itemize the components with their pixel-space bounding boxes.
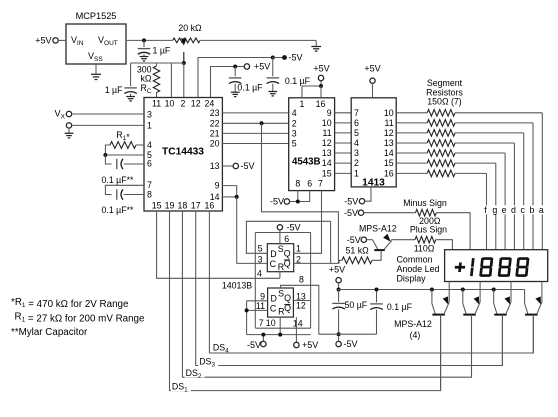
svg-text:13: 13 bbox=[322, 148, 332, 158]
-5V terminal dot bbox=[282, 55, 287, 60]
junction node VOUT/1uF bbox=[142, 38, 146, 42]
label Plus Sign bbox=[410, 225, 447, 235]
svg-text:11: 11 bbox=[385, 118, 394, 128]
svg-text:3: 3 bbox=[258, 254, 263, 264]
wire 4543 pin16 vdd bbox=[320, 86, 322, 98]
wire pin14 bbox=[222, 196, 236, 198]
TC right pin labels bbox=[210, 108, 220, 202]
wire VOUT output bbox=[126, 39, 173, 41]
svg-text:6: 6 bbox=[307, 179, 312, 189]
wire pin21 to 4543 pin3 bbox=[222, 132, 288, 134]
wire pin9 bbox=[222, 186, 236, 197]
terminal -5V minus sign bbox=[358, 210, 363, 215]
svg-text:+5V: +5V bbox=[302, 340, 318, 350]
svg-text:0.1 µF: 0.1 µF bbox=[237, 82, 263, 92]
wires 1413 outputs bbox=[396, 113, 427, 174]
resistor RC 300k bbox=[153, 63, 159, 98]
wire pin7 riser bbox=[262, 335, 264, 342]
svg-text:2: 2 bbox=[354, 158, 359, 168]
wire DS4 bbox=[209, 211, 533, 353]
label 0.1uF A bbox=[237, 82, 263, 92]
label 0.1uF starred 2 bbox=[102, 205, 135, 215]
svg-text:1: 1 bbox=[354, 169, 359, 179]
svg-text:2: 2 bbox=[292, 118, 297, 128]
wire R2 riser bbox=[279, 317, 281, 335]
+5V supply input label bbox=[35, 35, 51, 45]
wire C2 bbox=[247, 309, 268, 311]
label -5V U5a bbox=[287, 222, 301, 232]
svg-text:18: 18 bbox=[178, 201, 188, 211]
wire DS1 bbox=[170, 211, 441, 391]
svg-text:8: 8 bbox=[147, 189, 152, 199]
svg-text:b: b bbox=[530, 205, 535, 215]
svg-text:17: 17 bbox=[191, 201, 201, 211]
label -5V plus base bbox=[347, 235, 361, 245]
pot wiper arrow bbox=[181, 38, 187, 63]
junction caps bottom bbox=[337, 332, 341, 336]
capacitor 0.1uF C bbox=[319, 290, 383, 335]
label VX bbox=[55, 109, 66, 121]
wire D2 bbox=[247, 300, 268, 302]
label +5V 1413 bbox=[364, 64, 380, 74]
svg-text:23: 23 bbox=[210, 108, 220, 118]
svg-text:20 kΩ: 20 kΩ bbox=[178, 23, 202, 33]
wire TC pin15 to R1 bbox=[157, 211, 280, 278]
1413 +5V bbox=[370, 78, 375, 98]
label Minus Sign bbox=[403, 198, 447, 208]
svg-text:1: 1 bbox=[300, 99, 305, 109]
wire plus to display bbox=[436, 240, 453, 250]
svg-text:2: 2 bbox=[181, 99, 186, 109]
wire pin 12 up-over bbox=[198, 58, 273, 98]
svg-text:6: 6 bbox=[354, 118, 359, 128]
svg-text:C: C bbox=[270, 259, 277, 269]
capacitor 0.1uF pins7-8 bbox=[117, 189, 144, 199]
wire D2/C2 drop bbox=[246, 301, 248, 335]
label Segment Resistors bbox=[426, 78, 463, 107]
svg-text:MPS-A12: MPS-A12 bbox=[394, 319, 432, 329]
label -5V minus sign bbox=[344, 208, 358, 218]
svg-text:-5V: -5V bbox=[344, 208, 358, 218]
wire Q1bar loop bbox=[294, 262, 339, 264]
wire DS3 bbox=[196, 211, 503, 366]
svg-text:4: 4 bbox=[292, 108, 297, 118]
label -5V pin13 bbox=[241, 161, 255, 171]
note mylar capacitor bbox=[11, 327, 88, 338]
wire pin13 stub bbox=[222, 165, 233, 167]
wire S2 loop bbox=[281, 285, 319, 334]
label Common Anode Led Display bbox=[397, 254, 440, 283]
flip-flop U5a box bbox=[267, 244, 293, 272]
label -5V top bbox=[289, 53, 303, 63]
Q5 collector bbox=[372, 250, 381, 260]
label 1uF second bbox=[105, 85, 123, 95]
svg-text:c: c bbox=[520, 205, 525, 215]
resistor 200 ohm minus bbox=[416, 209, 437, 216]
label DS4 bbox=[212, 342, 232, 355]
label 300 kOhm RC bbox=[137, 65, 152, 96]
svg-text:12: 12 bbox=[296, 301, 306, 311]
svg-text:d: d bbox=[511, 205, 516, 215]
wire Q1 to 4543 LD bbox=[0, 0, 1, 1]
label MPS-A12 top bbox=[359, 223, 397, 233]
wire minus to display bbox=[436, 213, 470, 250]
svg-text:11: 11 bbox=[256, 301, 265, 311]
label 110 ohm bbox=[414, 244, 435, 254]
wire R1 left leg bbox=[105, 145, 110, 155]
svg-text:150Ω (7): 150Ω (7) bbox=[427, 97, 462, 107]
label +5V a bbox=[254, 62, 270, 72]
terminal -5V pin13 bbox=[233, 163, 238, 168]
svg-text:3: 3 bbox=[292, 128, 297, 138]
wire pin23 to 4543 pin4 bbox=[222, 112, 288, 114]
wire C1 from EOC bbox=[237, 262, 268, 264]
svg-text:MCP1525: MCP1525 bbox=[76, 11, 117, 21]
capacitor 0.1uF A bbox=[229, 67, 242, 97]
resistor 110 ohm plus bbox=[415, 236, 436, 243]
pin label VSS bbox=[88, 51, 103, 63]
wire pin7 left bbox=[105, 185, 144, 194]
svg-text:16: 16 bbox=[205, 201, 215, 211]
label -5V caps bbox=[344, 339, 358, 349]
svg-text:5: 5 bbox=[292, 139, 297, 149]
junction 0.1uF capA bbox=[233, 65, 237, 69]
wire set stem U5a bbox=[279, 230, 281, 244]
svg-text:1413: 1413 bbox=[362, 177, 385, 188]
display digit 8 third bbox=[515, 257, 529, 277]
pin label VOUT bbox=[98, 35, 118, 47]
TC top pin labels bbox=[152, 99, 214, 109]
svg-text:4: 4 bbox=[354, 138, 359, 148]
U5a pin labels bbox=[257, 234, 301, 279]
junction rail pin7 bbox=[261, 333, 265, 337]
wires resistors to display segment drops bbox=[455, 113, 542, 250]
terminal input low bbox=[66, 123, 71, 128]
junction R1/pin5 bbox=[103, 153, 107, 157]
svg-text:50 µF: 50 µF bbox=[345, 300, 368, 310]
4543 +5V riser bbox=[302, 81, 321, 98]
svg-text:Q: Q bbox=[284, 249, 291, 259]
U5b pin labels bbox=[256, 275, 306, 329]
label +5V 4543 bbox=[313, 64, 329, 74]
svg-text:12: 12 bbox=[322, 138, 332, 148]
segment letters f g e d c b a bbox=[482, 205, 546, 215]
wire -5V rail FFs bbox=[247, 334, 311, 336]
U5b letters bbox=[270, 289, 291, 317]
wire R1 reset bbox=[279, 272, 281, 279]
svg-text:TC14433: TC14433 bbox=[162, 147, 204, 158]
transistor Q2 MPS-A12 bbox=[461, 282, 480, 378]
svg-text:14: 14 bbox=[293, 318, 303, 328]
wire base lead bbox=[367, 240, 378, 250]
1413 right pin labels bbox=[384, 108, 394, 179]
transistor Q5 MPS-A12 bar bbox=[374, 249, 385, 251]
junction 4543 vdd bbox=[319, 84, 323, 88]
capacitor 1uF second bbox=[124, 88, 137, 101]
svg-text:Anode Led: Anode Led bbox=[397, 264, 440, 274]
label -5V 1413 bbox=[344, 196, 358, 206]
svg-text:D: D bbox=[270, 249, 276, 259]
wire +5V to VIN bbox=[58, 39, 66, 41]
terminal +5V input bbox=[53, 38, 58, 43]
terminal +5V cap rail bbox=[336, 278, 341, 283]
svg-text:1 µF: 1 µF bbox=[153, 46, 171, 56]
svg-text:10: 10 bbox=[266, 318, 276, 328]
wire 51k left leg bbox=[339, 260, 342, 263]
svg-text:10: 10 bbox=[322, 118, 332, 128]
svg-text:9: 9 bbox=[327, 108, 332, 118]
svg-text:14: 14 bbox=[322, 158, 332, 168]
TC left pin labels bbox=[147, 110, 152, 200]
terminal +5V 4543 bbox=[318, 75, 323, 80]
junction wiper/adj wire bbox=[182, 61, 186, 65]
svg-text:R1 = 27 kΩ for 200 mV Range: R1 = 27 kΩ for 200 mV Range bbox=[15, 312, 145, 325]
svg-text:Q: Q bbox=[284, 293, 291, 303]
svg-text:kΩ: kΩ bbox=[141, 74, 152, 84]
display digit 1 bbox=[470, 258, 475, 276]
svg-text:e: e bbox=[502, 205, 507, 215]
svg-text:*R1 = 470 kΩ for 2V Range: *R1 = 470 kΩ for 2V Range bbox=[11, 297, 129, 310]
svg-text:16: 16 bbox=[384, 169, 394, 179]
svg-text:6: 6 bbox=[284, 234, 289, 244]
terminal -5V U5a bbox=[277, 225, 282, 230]
wire cap to pin6 bbox=[105, 155, 144, 169]
wire rect left vertical bbox=[254, 233, 256, 328]
junction C2 bbox=[245, 308, 249, 312]
4543 top pin labels bbox=[300, 99, 326, 109]
svg-text:9: 9 bbox=[215, 181, 220, 191]
wire pin 24 up-over bbox=[211, 67, 245, 98]
svg-text:3: 3 bbox=[147, 110, 152, 120]
svg-text:12: 12 bbox=[384, 128, 394, 138]
display digit 8 first bbox=[479, 257, 493, 277]
label 51 kOhm bbox=[346, 245, 370, 255]
svg-text:10: 10 bbox=[384, 108, 394, 118]
svg-text:3: 3 bbox=[354, 148, 359, 158]
svg-text:9: 9 bbox=[260, 292, 265, 302]
label DS2 bbox=[185, 368, 205, 381]
note R1 values line1 bbox=[11, 297, 129, 310]
svg-text:14: 14 bbox=[384, 148, 394, 158]
junction 0.1uF capB bbox=[271, 56, 275, 60]
transistor rail bbox=[339, 289, 525, 291]
svg-text:15: 15 bbox=[322, 168, 332, 178]
svg-text:Minus Sign: Minus Sign bbox=[403, 198, 447, 208]
svg-text:Display: Display bbox=[397, 274, 427, 284]
svg-text:**Mylar Capacitor: **Mylar Capacitor bbox=[11, 327, 88, 338]
1413 -5V bottom bbox=[359, 187, 371, 204]
Q5 emitter with arrow bbox=[383, 234, 391, 250]
label DS3 bbox=[198, 356, 218, 369]
svg-text:-5V: -5V bbox=[289, 53, 303, 63]
svg-text:8: 8 bbox=[295, 179, 300, 189]
label DS1 bbox=[171, 381, 191, 394]
4543 left pin labels bbox=[292, 108, 297, 149]
wire pin 10 riser bbox=[170, 63, 172, 98]
terminal -5V rail bbox=[261, 341, 266, 346]
wire 4543 pin7 LD down bbox=[294, 191, 322, 254]
svg-text:1: 1 bbox=[147, 120, 152, 130]
wire +5V to rail bbox=[338, 283, 340, 290]
4543 -5V bottom bbox=[284, 199, 289, 204]
capacitor 0.1uF B bbox=[267, 58, 280, 96]
svg-text:+5V: +5V bbox=[313, 64, 329, 74]
svg-text:-5V: -5V bbox=[344, 196, 358, 206]
svg-text:15: 15 bbox=[152, 201, 162, 211]
svg-text:-5V: -5V bbox=[247, 340, 261, 350]
wires 4543B to 1413 bbox=[335, 113, 352, 174]
wire 1uF cap2 drop bbox=[130, 63, 132, 86]
wire adj rail bbox=[131, 62, 184, 64]
svg-text:6: 6 bbox=[147, 159, 152, 169]
svg-text:-5V: -5V bbox=[270, 197, 284, 207]
junction rail left bbox=[337, 288, 341, 292]
label 0.1uF starred bbox=[102, 175, 135, 185]
wire VX to pin3 bbox=[72, 113, 144, 115]
wire W_A from TC22 bbox=[262, 123, 339, 263]
svg-text:15: 15 bbox=[384, 158, 394, 168]
wire W_B down bbox=[330, 221, 332, 263]
svg-text:4543B: 4543B bbox=[292, 156, 321, 167]
decoder U2 4543B box bbox=[289, 98, 335, 191]
svg-text:11: 11 bbox=[152, 99, 161, 109]
junction pin14 bbox=[235, 195, 239, 199]
svg-text:g: g bbox=[492, 205, 497, 215]
ground at top right of pot wire bbox=[311, 47, 321, 52]
terminal VX bbox=[66, 111, 71, 116]
svg-text:C: C bbox=[270, 304, 277, 314]
svg-text:-5V: -5V bbox=[287, 222, 301, 232]
label TC14433 bbox=[162, 147, 204, 158]
label 0.1uF B bbox=[285, 76, 311, 86]
potentiometer 20k bbox=[173, 38, 200, 43]
transistor Q3 MPS-A12 bbox=[492, 282, 511, 366]
driver U4 1413 box bbox=[351, 98, 396, 187]
svg-text:7: 7 bbox=[354, 108, 359, 118]
label -5V 4543 bbox=[270, 197, 284, 207]
label 1413 bbox=[362, 177, 385, 188]
svg-text:Plus Sign: Plus Sign bbox=[410, 225, 447, 235]
wire rect bottom bbox=[255, 327, 310, 329]
label 200 ohm bbox=[419, 216, 441, 226]
svg-text:110Ω: 110Ω bbox=[414, 244, 435, 254]
label MPS-A12 (4) bbox=[394, 319, 432, 340]
label -5V rail bbox=[247, 340, 261, 350]
wire pin20 to 4543 pin5 bbox=[222, 143, 288, 145]
label 14013B bbox=[222, 281, 252, 291]
display digit 8 second bbox=[498, 257, 512, 277]
resistor 51k bbox=[342, 257, 372, 264]
svg-text:0.1 µF**: 0.1 µF** bbox=[102, 205, 135, 215]
terminal +5V a bbox=[244, 64, 249, 69]
wire Q2 bbox=[293, 300, 310, 302]
svg-text:51 kΩ: 51 kΩ bbox=[346, 245, 370, 255]
wire pin5 bbox=[105, 154, 144, 156]
wire Q2bar rect top bbox=[255, 232, 310, 234]
svg-text:-5V: -5V bbox=[241, 161, 255, 171]
svg-text:16: 16 bbox=[316, 99, 326, 109]
svg-text:0.1 µF: 0.1 µF bbox=[387, 302, 413, 312]
wire to pin1 bbox=[72, 124, 144, 126]
junction pin22 bbox=[260, 121, 264, 125]
label +5V pin14 bbox=[302, 340, 318, 350]
svg-text:(4): (4) bbox=[410, 330, 421, 340]
svg-text:13: 13 bbox=[210, 161, 220, 171]
terminal +5V pin14 bbox=[294, 342, 299, 347]
wire pot right to ground bbox=[200, 40, 316, 46]
label 4543B bbox=[292, 156, 321, 167]
ADC U1 TC14433 box bbox=[144, 98, 222, 212]
wire plus sign bbox=[391, 239, 415, 241]
4543 right pin labels bbox=[322, 108, 332, 179]
svg-text:Common: Common bbox=[397, 254, 433, 264]
svg-text:11: 11 bbox=[322, 128, 331, 138]
display plus sign glyph bbox=[454, 263, 465, 273]
svg-text:0.1 µF**: 0.1 µF** bbox=[102, 175, 135, 185]
wire EOC down to FF clock bbox=[236, 197, 238, 264]
svg-text:MPS-A12: MPS-A12 bbox=[359, 223, 397, 233]
TC bottom pin labels bbox=[152, 201, 215, 211]
voltage reference U3 MCP1525 box bbox=[66, 11, 126, 64]
wire D1 loop to S2 bbox=[246, 221, 330, 253]
wire minus sign bbox=[364, 212, 416, 214]
capacitor 1uF at VOUT bbox=[138, 40, 151, 61]
svg-text:21: 21 bbox=[210, 128, 220, 138]
flip-flop U5b box bbox=[268, 288, 294, 317]
svg-text:19: 19 bbox=[165, 201, 175, 211]
junction rail 0.1uF bbox=[375, 288, 379, 292]
label +5V cap rail bbox=[329, 265, 345, 275]
capacitor 50uF bbox=[332, 290, 345, 335]
svg-text:20: 20 bbox=[210, 139, 220, 149]
wire -5V to pins 8 6 bbox=[290, 191, 310, 202]
svg-text:0.1 µF: 0.1 µF bbox=[285, 76, 311, 86]
svg-text:-5V: -5V bbox=[347, 235, 361, 245]
wire rect right vertical bbox=[310, 233, 312, 329]
svg-text:5: 5 bbox=[354, 128, 359, 138]
4543 bottom pin labels bbox=[295, 179, 323, 189]
wire to -5V terminal bbox=[273, 57, 285, 59]
terminal -5V plus base bbox=[361, 237, 366, 242]
svg-text:5: 5 bbox=[258, 244, 263, 254]
wire pin14 riser bbox=[295, 317, 297, 342]
display DS1 common anode box bbox=[445, 250, 548, 282]
label 1uF bbox=[153, 46, 171, 56]
wire wiper down to pin 2 bbox=[183, 63, 185, 98]
svg-text:2: 2 bbox=[296, 254, 301, 264]
U5a letters bbox=[270, 244, 291, 272]
transistor Q1 MPS-A12 bbox=[430, 282, 449, 391]
label R1 bbox=[116, 130, 130, 142]
svg-text:+5V: +5V bbox=[329, 265, 345, 275]
svg-text:+5V: +5V bbox=[254, 62, 270, 72]
svg-text:8: 8 bbox=[299, 275, 304, 285]
label 0.1uF C bbox=[387, 302, 413, 312]
1413 left pin labels bbox=[354, 108, 359, 179]
junction rail R2 bbox=[278, 333, 282, 337]
pin label VIN bbox=[71, 35, 84, 47]
svg-text:10: 10 bbox=[165, 99, 175, 109]
wire DS2 bbox=[182, 211, 471, 377]
svg-text:13: 13 bbox=[384, 138, 394, 148]
svg-text:+5V: +5V bbox=[35, 35, 51, 45]
junction pin8 -5V bbox=[296, 200, 300, 204]
note R1 values line2 bbox=[15, 312, 145, 325]
segment resistors 150 ohm bbox=[427, 110, 455, 177]
svg-text:4: 4 bbox=[257, 269, 262, 279]
ground under VX bbox=[65, 128, 74, 138]
svg-text:12: 12 bbox=[191, 99, 201, 109]
